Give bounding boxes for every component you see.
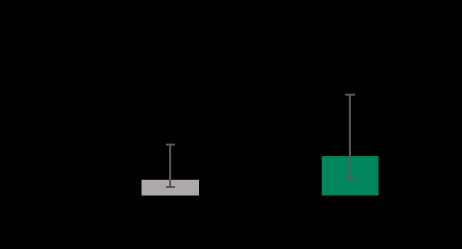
bar 1 (gray) — [142, 180, 200, 196]
error bar 1 line — [169, 145, 171, 187]
error bar 1 bottom cap — [166, 186, 175, 188]
bar 2 (green) — [322, 156, 379, 195]
error bar 2 top cap — [345, 94, 355, 96]
error bar 1 top cap — [166, 144, 175, 146]
error bar 2 line — [349, 95, 351, 180]
error bar 2 bottom cap — [345, 179, 355, 181]
